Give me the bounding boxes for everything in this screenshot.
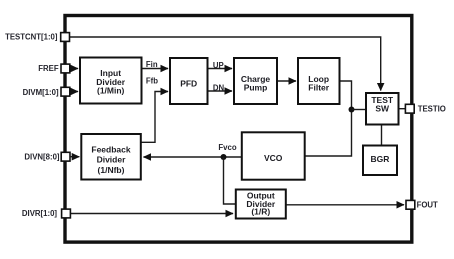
net label Ffb: [146, 77, 158, 86]
svg-text:Pump: Pump: [244, 83, 268, 93]
svg-text:Ffb: Ffb: [146, 77, 158, 86]
svg-text:VCO: VCO: [264, 153, 283, 163]
wire DIVN to Feedback Divider: [70, 156, 79, 158]
svg-text:(1/R): (1/R): [251, 207, 270, 217]
svg-text:FREF: FREF: [38, 64, 59, 73]
svg-text:SW: SW: [375, 104, 390, 114]
wire Output Divider to FOUT: [286, 204, 404, 206]
wire Ffb: Feedback Divider to PFD: [141, 92, 168, 143]
port DIVN[8:0]: [24, 152, 70, 161]
net label UP: [213, 61, 224, 70]
svg-text:DIVM[1:0]: DIVM[1:0]: [23, 88, 59, 97]
svg-text:Filter: Filter: [308, 83, 329, 93]
svg-text:Divider: Divider: [97, 154, 127, 164]
port TESTCNT[1:0]: [5, 33, 69, 42]
wire DIVR to Output Divider: [71, 213, 234, 215]
svg-text:Fvco: Fvco: [218, 143, 236, 152]
wire TEST SW to BGR: [381, 125, 383, 146]
block PFD: [170, 58, 208, 104]
port FREF: [38, 64, 70, 73]
svg-text:TESTIO: TESTIO: [418, 104, 446, 113]
block TEST SW: [366, 93, 399, 125]
wire Fvco to Output Divider: [224, 157, 237, 204]
wire UP: PFD to Charge Pump: [208, 68, 233, 70]
port FOUT: [406, 200, 438, 209]
wire DN: PFD to Charge Pump: [208, 90, 233, 92]
junction Fvco node: [221, 154, 227, 160]
junction control node: [349, 107, 355, 113]
wire junction to TEST SW: [352, 109, 367, 111]
net label Fin: [146, 60, 158, 69]
net label Fvco: [218, 143, 236, 152]
port DIVM[1:0]: [23, 87, 70, 97]
wire Fvco: VCO output to Feedback Divider: [144, 156, 242, 158]
block Feedback Divider (1/Nfb): [81, 134, 141, 180]
wire TESTCNT[1:0] to TEST SW: [70, 37, 381, 91]
block Charge Pump: [234, 58, 277, 104]
svg-text:(1/Nfb): (1/Nfb): [98, 165, 125, 175]
block VCO: [242, 132, 305, 179]
net label DN: [213, 84, 225, 93]
svg-text:BGR: BGR: [371, 154, 390, 164]
block Output Divider (1/R): [236, 190, 286, 219]
svg-text:Feedback: Feedback: [91, 145, 130, 155]
port DIVR[1:0]: [22, 209, 70, 218]
block BGR: [363, 146, 397, 176]
wire Fin: Input Divider to PFD: [142, 68, 169, 70]
wire DIVM to Input Divider: [70, 91, 78, 93]
wire FREF to Input Divider: [70, 68, 78, 70]
svg-text:DIVN[8:0]: DIVN[8:0]: [24, 153, 59, 162]
wire TEST SW to TESTIO: [399, 108, 407, 110]
port TESTIO: [405, 104, 445, 113]
svg-text:PFD: PFD: [180, 78, 197, 88]
svg-text:DIVR[1:0]: DIVR[1:0]: [22, 209, 57, 218]
svg-text:UP: UP: [213, 61, 224, 70]
wire Loop Filter output to VCO control input: [305, 81, 352, 156]
svg-text:(1/Min): (1/Min): [97, 86, 125, 96]
svg-text:DN: DN: [213, 84, 225, 93]
svg-text:FOUT: FOUT: [417, 201, 438, 210]
chip outer boundary: [65, 16, 412, 243]
wire Charge Pump to Loop Filter: [277, 80, 296, 82]
svg-text:TESTCNT[1:0]: TESTCNT[1:0]: [5, 33, 58, 42]
svg-text:Fin: Fin: [146, 60, 158, 69]
block Loop Filter: [298, 58, 340, 104]
block Input Divider (1/Min): [80, 58, 142, 104]
